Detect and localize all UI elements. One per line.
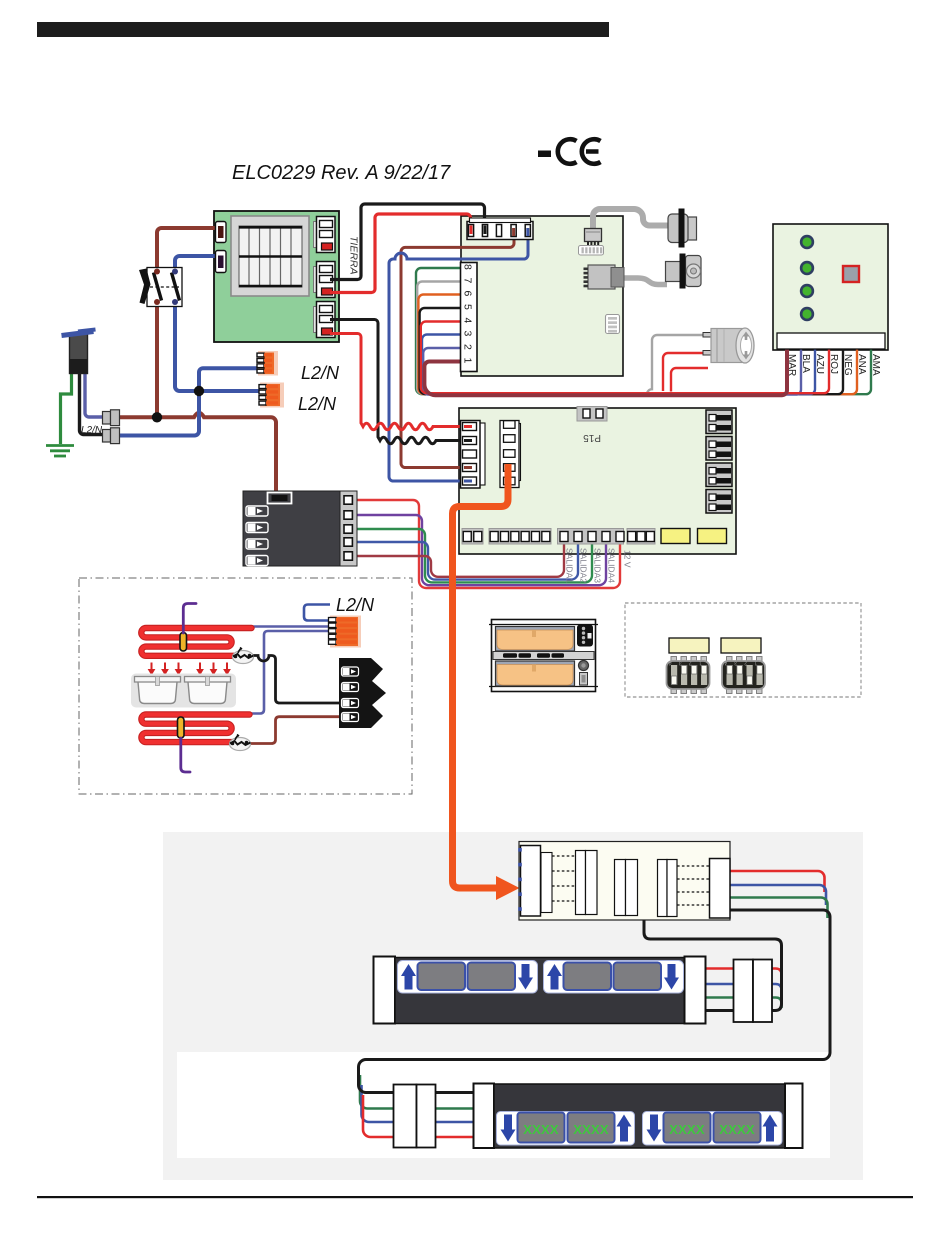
wire 8 green AMA — [416, 268, 871, 394]
harness connector 2 — [576, 851, 598, 915]
wire 4 red ROJ — [421, 322, 829, 394]
svg-text:XXXX: XXXX — [669, 1122, 705, 1137]
food pan — [185, 677, 231, 704]
relay output connector K4 — [706, 490, 732, 514]
row1 connector block — [734, 960, 773, 1023]
fuse F2 — [698, 529, 727, 544]
svg-text:NEG: NEG — [842, 354, 853, 376]
wire maroon thermostat2 to module — [249, 717, 340, 744]
terminal strip C SALIDA — [558, 529, 625, 545]
DIP resistor pack — [579, 246, 604, 256]
tray shadow — [131, 674, 236, 708]
heating element top coil — [141, 628, 251, 656]
food pan — [135, 677, 181, 704]
svg-text:4: 4 — [462, 318, 474, 324]
black module terminal — [342, 699, 359, 708]
pin stub red — [470, 226, 473, 235]
wire 2 slate BLA — [423, 348, 801, 395]
heat arrow — [162, 663, 168, 675]
pin stub blue — [526, 228, 529, 236]
cable gray to D-sub2 — [620, 278, 667, 285]
row2 display group 2 — [643, 1112, 783, 1146]
dashed DIP box — [625, 603, 861, 697]
svg-text:AMA: AMA — [870, 354, 881, 376]
pin stub black — [484, 226, 487, 235]
wire blue splice2 up to junction — [119, 391, 199, 436]
wire blue junction to connector B — [199, 389, 262, 393]
warmer upper cavity — [496, 627, 575, 652]
harness connector 4 — [658, 860, 678, 917]
connector L1 — [216, 222, 227, 243]
wire red encoder pin2 — [663, 353, 705, 391]
wire SALIDA3 — [352, 529, 592, 582]
display bar 1 body — [395, 958, 685, 1024]
warmer control panel — [577, 625, 593, 647]
svg-text:ELC0229 Rev. A 9/22/17: ELC0229 Rev. A 9/22/17 — [232, 162, 451, 184]
wire red R3 wavy to relay pin1 — [330, 334, 470, 430]
small connector J3 — [585, 229, 602, 246]
svg-text:L2/N: L2/N — [298, 394, 337, 414]
svg-text:4: 4 — [724, 660, 727, 666]
row2 white underlay — [177, 1052, 830, 1158]
wire green plug to ground — [61, 373, 72, 444]
wire black R3 wavy to relay pin2 — [330, 320, 470, 444]
module right terminal 5 — [344, 552, 352, 560]
wire 6 orange ANA — [418, 295, 857, 395]
display bar 2 right cap — [785, 1084, 803, 1149]
svg-text:6: 6 — [462, 291, 474, 297]
wire 12V — [352, 500, 620, 588]
splice connector 1 — [103, 410, 120, 426]
svg-text:1: 1 — [699, 660, 702, 666]
wire black thermostat1 to module (hop) — [252, 656, 340, 704]
svg-text:8: 8 — [462, 264, 474, 270]
relay board PCB — [459, 408, 736, 554]
wire brown 5pin pin4 to relay pin4 — [401, 235, 514, 468]
purple wire top fuse — [183, 604, 196, 634]
LED D4 — [800, 307, 814, 321]
wire brown switch down to junction — [155, 306, 159, 417]
wire 7 gray encoder — [417, 282, 705, 395]
harness dashed wires 1 — [552, 856, 576, 901]
wire blue switch down to junction — [175, 306, 196, 391]
svg-text:3: 3 — [679, 660, 682, 666]
heat arrow — [197, 663, 203, 675]
display bar 2 left cap — [474, 1084, 495, 1149]
thermostat TH2 — [230, 735, 251, 751]
wire slate lever block to bottom coil — [248, 631, 330, 714]
transformer T1 — [231, 216, 309, 296]
heat arrow — [211, 663, 217, 675]
wire black R2 to main 5pin pin2 — [330, 204, 485, 280]
wire SALIDA2 — [352, 541, 578, 580]
heat arrow — [149, 663, 155, 675]
module right terminal 4 — [344, 538, 352, 546]
power plug — [62, 330, 96, 374]
black distribution module (cutaway) — [339, 658, 386, 728]
svg-text:12 V: 12 V — [623, 550, 633, 568]
5-pin connector J1 — [467, 218, 533, 240]
module left terminal 4 — [246, 556, 268, 566]
top black bar — [37, 22, 609, 37]
svg-text:L2/N: L2/N — [336, 595, 375, 615]
wire blue junction up to connector A — [199, 368, 260, 391]
svg-text:SALIDA2: SALIDA2 — [579, 548, 589, 583]
connector R3 — [314, 302, 336, 338]
rotary encoder — [703, 328, 754, 363]
row2 connector block — [394, 1085, 436, 1148]
wire red encoder pin3 — [671, 368, 708, 392]
label strip white — [777, 333, 885, 349]
yellow label 1 — [669, 638, 709, 653]
black module terminal — [342, 667, 359, 676]
splice connector 2 — [103, 428, 120, 444]
svg-text:2: 2 — [689, 660, 692, 666]
terminal strip B — [489, 529, 551, 545]
svg-text:2: 2 — [744, 660, 747, 666]
D-sub connector P1 — [668, 209, 697, 248]
module top terminal — [268, 493, 292, 504]
svg-text:XXXX: XXXX — [719, 1122, 755, 1137]
svg-text:5: 5 — [462, 304, 474, 310]
wire red R2 to main 5pin pin1 — [330, 214, 471, 293]
heat arrow — [224, 663, 230, 675]
thermal fuse bottom — [178, 717, 185, 738]
warmer lower cavity — [496, 661, 575, 686]
module right terminal 2 — [344, 511, 352, 519]
orange connector B — [259, 383, 284, 408]
svg-text:ANA: ANA — [856, 354, 867, 375]
4-pin header J5 — [606, 315, 620, 334]
power board PCB — [214, 211, 339, 342]
bottom rule — [37, 1196, 913, 1198]
ground — [46, 446, 74, 457]
junction dot brown — [152, 412, 162, 422]
8-pin connector J2 — [461, 263, 478, 372]
harness connector 1 — [518, 846, 552, 917]
row2 wire blue — [362, 1085, 481, 1122]
svg-text:7: 7 — [462, 278, 474, 284]
bottom gray panel — [163, 832, 863, 1180]
row1 stub red — [705, 969, 782, 993]
module right terminal 1 — [344, 496, 352, 504]
svg-text:1: 1 — [462, 358, 474, 364]
svg-text:4: 4 — [669, 660, 672, 666]
relay output connector K2 — [706, 437, 732, 461]
svg-text:3: 3 — [734, 660, 737, 666]
dash-dot enclosure box — [79, 578, 412, 794]
connector R2 — [314, 262, 336, 298]
warmer knob — [579, 661, 589, 671]
svg-text:3: 3 — [462, 331, 474, 337]
svg-text:2: 2 — [462, 344, 474, 350]
DIP switch SW2 — [722, 657, 765, 694]
relay output connector K3 — [706, 463, 732, 487]
pin stub brown — [512, 228, 515, 236]
RJ45 jack J4 — [584, 265, 625, 289]
harness black wire long run to row2 — [359, 910, 831, 1093]
svg-text:1: 1 — [754, 660, 757, 666]
warmer middle divider — [493, 652, 594, 660]
orange arrow head — [496, 876, 520, 900]
connector R1 — [314, 217, 336, 253]
svg-text:TIERRA: TIERRA — [348, 236, 360, 275]
warmer slider — [580, 673, 588, 686]
row1 display group 2 — [544, 961, 684, 994]
svg-text:L2/N: L2/N — [81, 425, 103, 436]
harness dashed wires 2 — [677, 866, 710, 905]
CE mark — [538, 139, 601, 164]
wire slate plug to splice1 — [85, 373, 103, 417]
row1 stub blue — [705, 984, 782, 1000]
svg-text:XXXX: XXXX — [523, 1122, 559, 1137]
harness adapter board — [519, 842, 730, 921]
wire slate top coil to lever block — [249, 625, 330, 628]
LED display board PCB — [773, 224, 888, 350]
harness connector 3 — [615, 860, 638, 916]
svg-text:SALIDA4: SALIDA4 — [607, 548, 617, 583]
orange connector A — [257, 351, 278, 376]
terminal strip A — [462, 529, 483, 545]
P15 connector — [577, 407, 607, 422]
heater lever connector block — [329, 616, 362, 648]
harness wire green — [728, 898, 828, 919]
relay second connector J11 — [500, 421, 521, 488]
svg-text:SALIDA1: SALIDA1 — [565, 548, 575, 583]
yellow label 2 — [721, 638, 761, 653]
harness connector 5 — [710, 859, 731, 919]
black module terminal — [342, 713, 359, 722]
display bar 1 right cap — [685, 957, 706, 1024]
wire SALIDA1 — [352, 541, 564, 577]
row2 display group 1 — [497, 1112, 635, 1146]
wire blue 5pin pin5 to relay pin5 (hop) — [389, 235, 528, 481]
LED D2 — [800, 261, 814, 275]
module left terminal 2 — [246, 523, 268, 533]
LED D3 — [800, 284, 814, 298]
buzzer/red square — [843, 266, 859, 282]
wire black plug to splice2 — [80, 373, 104, 435]
cable gray to D-sub1 — [593, 209, 669, 228]
wire 3 blue AZU — [422, 335, 815, 395]
purple wire bottom fuse — [181, 738, 190, 772]
row1 display group 1 — [398, 961, 538, 994]
orange wire main run — [453, 464, 509, 888]
module left terminal 1 — [246, 506, 268, 516]
wire brown L1 to switch — [157, 228, 216, 268]
connector L2 — [216, 251, 227, 273]
module M1 body — [243, 491, 357, 566]
LED D1 — [800, 235, 814, 249]
terminal strip D — [627, 529, 655, 545]
black module terminal — [342, 683, 359, 692]
relay left connector J10 — [461, 421, 486, 489]
wire 5 black NEG — [420, 308, 843, 394]
row2 wire green — [360, 1075, 480, 1109]
thermostat TH1 — [233, 648, 254, 664]
relay output connector K1 — [706, 410, 732, 434]
DIP switch SW1 — [667, 657, 710, 694]
D-sub connector P2 — [666, 254, 702, 289]
svg-text:AZU: AZU — [814, 354, 825, 374]
warmer unit outline — [489, 620, 598, 692]
svg-text:XXXX: XXXX — [573, 1122, 609, 1137]
svg-text:SALIDA3: SALIDA3 — [593, 548, 603, 583]
module right terminal 3 — [344, 525, 352, 533]
thermal fuse top — [180, 633, 187, 652]
wire 1 maroon MAR — [424, 349, 787, 395]
wire blue L2 to switch — [175, 256, 216, 268]
switch DPST — [139, 268, 182, 307]
heating element bottom coil — [141, 715, 249, 743]
heat arrow — [176, 663, 182, 675]
svg-text:ROJ: ROJ — [828, 354, 839, 374]
fuse F1 — [661, 529, 690, 544]
row1 stub green — [705, 998, 782, 1009]
wire blue L2/N to lever block — [304, 605, 330, 621]
display bar 1 left cap — [374, 957, 396, 1024]
svg-text:L2/N: L2/N — [301, 363, 340, 383]
display bar 2 body — [494, 1084, 785, 1148]
svg-text:P15: P15 — [583, 432, 601, 443]
harness wire red — [728, 871, 825, 892]
wire brown splice1 to module (hop over blue) — [119, 413, 276, 497]
module left terminal 3 — [246, 539, 268, 549]
harness black wire B to row1 — [644, 918, 782, 1011]
wire SALIDA4 — [352, 515, 606, 585]
main control board PCB — [461, 216, 623, 376]
junction dot blue — [194, 386, 204, 396]
svg-text:MAR: MAR — [786, 354, 797, 376]
svg-text:BLA: BLA — [800, 354, 811, 373]
harness wire blue — [728, 885, 826, 905]
row2 wire red — [363, 1095, 480, 1137]
